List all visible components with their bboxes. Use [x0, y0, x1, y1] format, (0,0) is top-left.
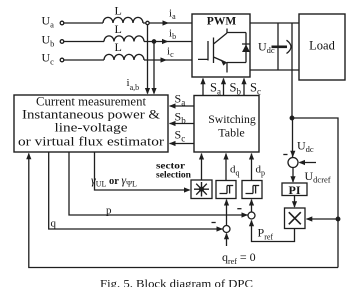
inductor L2 [104, 36, 144, 42]
multiplier cross [289, 212, 301, 224]
wire Sc feedback [170, 143, 194, 145]
wire dp to table [251, 154, 253, 181]
node tap b junction [152, 40, 155, 43]
hysteresis dp symbol [246, 186, 260, 194]
wire DC rail top [250, 22, 299, 24]
block switching table [194, 96, 259, 153]
node summing junction Udc [288, 158, 298, 168]
arrow ic [161, 57, 168, 62]
minus sign p [237, 208, 241, 210]
inductor L3 [104, 54, 144, 60]
wire Udcref stub [300, 162, 317, 164]
arrow dp to table [249, 153, 254, 160]
arrow ia [163, 20, 170, 25]
wire tap b down to estimator [153, 43, 155, 93]
wire junction to multiplier [307, 218, 339, 220]
wire branch to right [292, 118, 338, 268]
capacitor C plate [272, 45, 288, 48]
wire summer to PI [292, 168, 294, 183]
wire p output [69, 152, 248, 215]
svg-text:Load: Load [309, 39, 335, 53]
wire Udc to summer [292, 118, 294, 157]
load box [299, 14, 345, 80]
wire L2 to PWM [144, 41, 192, 43]
node summing junction q [223, 226, 230, 233]
arrow sector to table [199, 153, 204, 160]
minus sign q [212, 222, 216, 224]
wire IGBT top [227, 32, 246, 34]
wire p summer to hysteresis [251, 200, 253, 213]
arrow Sc feedback left [169, 141, 176, 146]
sector selection star [194, 182, 209, 197]
svg-text:line-voltage: line-voltage [55, 121, 129, 135]
capacitor C left lead [277, 23, 279, 70]
svg-text:L: L [115, 4, 122, 18]
svg-text:Instantaneous power &: Instantaneous power & [22, 108, 160, 122]
svg-text:PI: PI [289, 183, 301, 197]
transistor Q1 body [214, 33, 228, 63]
node tap a [146, 21, 149, 24]
wire PI to multiplier [294, 196, 296, 208]
arrow Udcref into summer [299, 160, 306, 165]
inductor L1 [103, 17, 143, 23]
converter PWM box [192, 14, 250, 77]
svg-text:Current measurement: Current measurement [36, 95, 147, 109]
block estimator [14, 95, 168, 152]
wire Sa feedback [170, 105, 194, 107]
wire L3 to PWM [144, 59, 192, 61]
arrow gamma into sector [184, 187, 191, 192]
svg-text:L: L [115, 22, 122, 36]
wire Sb feedback [170, 123, 194, 125]
block multiplier [285, 208, 306, 229]
wire Ua to L1 [64, 22, 103, 24]
wire Sc gate drive [243, 79, 245, 96]
wire Ub to L2 [64, 41, 104, 43]
wire Uc to L3 [64, 59, 104, 61]
svg-text:qref = 0: qref = 0 [222, 250, 256, 266]
minus sign Udc [283, 154, 287, 156]
wire Sb gate drive [223, 79, 225, 96]
svg-text:selection: selection [156, 171, 192, 181]
arrow PI into multiplier [292, 201, 297, 208]
wire L1 to PWM [143, 22, 192, 24]
arrowheads [26, 20, 312, 239]
arrow tap a into estimator [145, 88, 150, 95]
arrow tap b into estimator [151, 88, 156, 95]
diode D1 [242, 33, 250, 63]
arrow Sb up [221, 78, 226, 85]
arrow summer into PI [290, 176, 295, 183]
wire IGBT bottom [227, 63, 246, 73]
wire gamma output [95, 152, 190, 190]
block hysteresis dq [216, 181, 236, 199]
arrow q to hysteresis [224, 199, 229, 206]
block PI [282, 183, 307, 196]
wire tap a down to estimator [147, 25, 149, 94]
transistor Q1 collector stub [226, 29, 228, 34]
wire dq to table [225, 154, 227, 181]
node Uc terminal [60, 58, 64, 62]
svg-text:PWM: PWM [207, 16, 237, 28]
arrow ib [162, 39, 169, 44]
transistor Q1 gate lead [198, 41, 208, 61]
arrow outer loop into estimator [26, 153, 31, 160]
arrow dq to table [223, 153, 228, 160]
capacitor C right lead [291, 23, 293, 70]
node multiplier feed junction [336, 217, 340, 221]
wire pref loop [252, 221, 295, 242]
arrow Sc up [241, 78, 246, 85]
transistor Q1 emitter arrow [221, 59, 227, 65]
block sector selection [191, 180, 212, 199]
wire q summer to hysteresis [226, 200, 228, 226]
node summing junction p [248, 212, 255, 219]
svg-text:or virtual flux estimator: or virtual flux estimator [18, 135, 165, 149]
wire Sa gate drive [202, 79, 204, 96]
arrow p into summer [242, 212, 249, 217]
svg-text:Table: Table [218, 126, 244, 140]
svg-text:q: q [51, 218, 57, 230]
arrow p to hysteresis [249, 199, 254, 206]
arrow Sa up [200, 78, 205, 85]
wire sector to table [201, 154, 203, 181]
wire bottom feedback loop [29, 154, 338, 268]
node Ua terminal [60, 21, 64, 25]
wire Udc sense drop [291, 70, 293, 118]
hysteresis dq symbol [220, 186, 234, 194]
arrow Udc into summer [290, 151, 295, 158]
arrow q into summer [217, 226, 224, 231]
svg-text:p: p [106, 205, 112, 217]
wire q output [49, 152, 223, 229]
wire DC rail bottom [250, 69, 299, 71]
diode D1 triangle [242, 45, 250, 53]
node Udc branch junction [290, 116, 294, 120]
capacitor C curved plate [287, 40, 292, 53]
arrow Sa feedback left [169, 103, 176, 108]
arrow qref into summer [224, 233, 229, 240]
block hysteresis dp [242, 181, 262, 199]
wire qref stub [226, 234, 228, 247]
svg-text:Fig. 5. Block diagram of DPC: Fig. 5. Block diagram of DPC [100, 279, 253, 287]
arrow Sb feedback left [169, 121, 176, 126]
svg-text:L: L [115, 40, 122, 54]
svg-text:Switching: Switching [208, 112, 256, 126]
arrow pref into summer [249, 220, 254, 227]
node Ub terminal [60, 40, 64, 44]
arrow into multiplier right [306, 216, 313, 221]
